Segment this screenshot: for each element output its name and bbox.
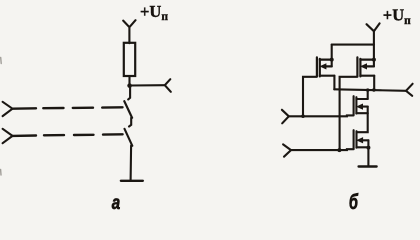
wire VT2 drain to output bus xyxy=(373,76,375,90)
wire S2 to ground xyxy=(130,146,133,181)
output terminal (left circuit) xyxy=(165,79,171,92)
control line dashed to S1 xyxy=(13,107,123,108)
power label +Uп (left circuit) xyxy=(140,2,168,23)
power label +Uп (right circuit) xyxy=(383,6,411,27)
junction dot VT2 source xyxy=(372,58,376,62)
wire +U rail xyxy=(332,44,374,46)
junction dot VT4 source xyxy=(366,146,370,150)
input terminal X2 (left circuit) xyxy=(3,129,13,143)
svg-text:б: б xyxy=(349,190,359,213)
label б xyxy=(349,190,359,213)
transistor VT3 (middle MOSFET) xyxy=(354,96,368,115)
input terminal A upper (right circuit) xyxy=(282,110,289,124)
wire input A to VT3 gate xyxy=(289,114,354,117)
control line dashed to S2 xyxy=(13,134,123,136)
wire VT4 source to ground xyxy=(367,140,369,166)
junction dot input A / VT1 gate xyxy=(301,114,305,118)
label а xyxy=(112,191,121,213)
wire VT3 bulk-source tie xyxy=(367,107,369,114)
transistor VT1 (upper left MOSFET) xyxy=(317,57,335,76)
wire VT3 drain up to output bus xyxy=(367,90,369,99)
wire node to switch S1 xyxy=(128,86,130,100)
output terminal (right circuit) xyxy=(406,84,413,96)
wire VT1 drain to output bus xyxy=(333,76,335,90)
transistor VT2 (upper right MOSFET) xyxy=(357,57,374,76)
scan edge artifact marks xyxy=(0,58,2,176)
wire output bus xyxy=(334,89,406,91)
transistor VT4 (lower MOSFET) xyxy=(354,130,369,149)
ground (right circuit) xyxy=(359,165,377,167)
wire VT2 gate to input A xyxy=(340,77,358,150)
junction dot VT2 drain on output bus xyxy=(372,88,376,92)
wire S1 to S2 xyxy=(129,118,131,127)
switch contact S1 xyxy=(124,101,132,118)
power terminal (left circuit) xyxy=(123,20,135,43)
wire +U down to VT2 source xyxy=(373,31,375,67)
wire resistor to output node xyxy=(128,76,130,86)
wire output (left circuit) xyxy=(130,84,165,86)
wire rail to VT1 source xyxy=(331,45,333,67)
wire VT1 gate to input B xyxy=(303,77,317,116)
junction dot input B / VT2 gate xyxy=(337,148,341,152)
junction dot VT1 source xyxy=(330,58,334,62)
input terminal X1 (left circuit) xyxy=(3,102,13,116)
junction dot VT3 drain on output bus xyxy=(366,88,369,91)
power terminal (right circuit) xyxy=(367,23,380,31)
node output junction (left circuit) xyxy=(127,83,132,88)
switch contact S2 xyxy=(125,129,133,146)
input terminal B lower (right circuit) xyxy=(283,144,291,156)
wire input B to VT4 gate xyxy=(291,148,354,151)
ground (left circuit) xyxy=(121,180,143,182)
svg-text:а: а xyxy=(112,191,121,213)
wire VT3 source to VT4 drain xyxy=(357,113,368,132)
resistor R1 xyxy=(124,43,135,76)
